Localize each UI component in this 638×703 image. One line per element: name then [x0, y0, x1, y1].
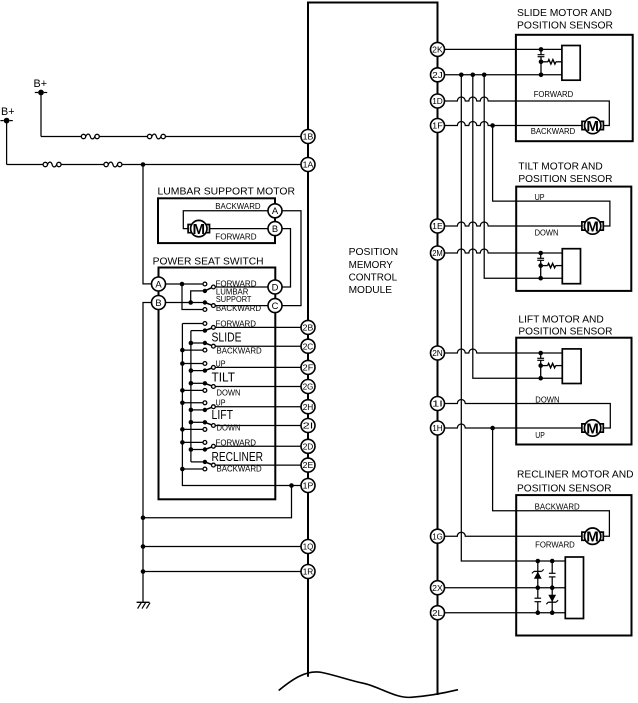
svg-text:TILT MOTOR AND: TILT MOTOR AND	[518, 161, 603, 173]
switch pole lumbar-backward	[203, 300, 216, 307]
sensor branch wire left	[537, 561, 539, 598]
wire junction to 1P	[292, 485, 302, 487]
switch group LIFT	[182, 398, 301, 433]
switch pole LIFT upper	[203, 408, 207, 412]
svg-text:UP: UP	[535, 192, 545, 202]
svg-text:DOWN: DOWN	[217, 387, 241, 397]
switch group TILT	[182, 358, 301, 397]
svg-text:BACKWARD: BACKWARD	[217, 464, 262, 474]
switch pole TILT upper	[203, 368, 207, 372]
feeder wire E (1H to recliner backward)	[493, 428, 610, 536]
output wire LIFT upper	[215, 406, 301, 408]
svg-text:DOWN: DOWN	[535, 227, 559, 237]
tilt motor and position sensor box	[516, 187, 631, 291]
wire 1P drop to ground bus	[143, 486, 292, 518]
output wire TILT upper	[215, 366, 301, 368]
output wire SLIDE upper	[215, 326, 301, 328]
connector 1B	[301, 130, 315, 144]
svg-text:M: M	[586, 119, 599, 135]
wire 1D row to slide motor loop	[445, 97, 610, 126]
contact SLIDE BACKWARD	[203, 348, 207, 352]
fuse F1 on 1B feed	[81, 134, 99, 139]
fuse F4 on 1A feed	[104, 162, 122, 167]
connector 1I	[431, 397, 445, 411]
position sensor lift	[537, 349, 581, 384]
svg-text:2L: 2L	[432, 608, 443, 618]
svg-text:D: D	[272, 281, 279, 292]
contact forward (lumbar)	[203, 282, 207, 286]
connector 1G	[431, 529, 445, 543]
wire switch pin B to ground bus	[143, 303, 152, 602]
wire B+ lower down to 1A row	[6, 123, 8, 165]
connector D	[268, 280, 282, 294]
svg-text:FORWARD: FORWARD	[534, 89, 574, 99]
switch pole SLIDE upper	[203, 328, 207, 332]
svg-text:POWER SEAT SWITCH: POWER SEAT SWITCH	[153, 255, 264, 267]
connector A	[268, 204, 282, 218]
svg-text:1A: 1A	[303, 160, 314, 170]
contact LIFT UP	[203, 401, 207, 405]
lumbar stub bus	[182, 284, 203, 310]
wire B+ upper down to 1B row	[40, 95, 42, 137]
connector 2G	[301, 380, 315, 394]
wire ground bus to 1R	[143, 571, 301, 573]
svg-text:LIFT MOTOR AND: LIFT MOTOR AND	[518, 314, 604, 326]
svg-text:LUMBAR SUPPORT MOTOR: LUMBAR SUPPORT MOTOR	[158, 185, 296, 197]
connector A	[152, 277, 166, 291]
feeder wire C (2J to tilt sensor bottom)	[484, 75, 562, 278]
svg-text:BACKWARD: BACKWARD	[217, 345, 262, 355]
output wire RECLINER upper	[215, 445, 301, 447]
junction 1F feeder	[490, 123, 495, 128]
connector 2K	[431, 42, 445, 56]
svg-text:UP: UP	[216, 398, 226, 408]
svg-text:2N: 2N	[432, 348, 443, 358]
svg-text:1Q: 1Q	[303, 542, 314, 552]
stub wire LIFT DOWN	[182, 428, 203, 430]
svg-text:POSITION SENSOR: POSITION SENSOR	[517, 20, 613, 32]
svg-text:C: C	[272, 300, 279, 311]
connector 2F	[301, 360, 315, 374]
svg-text:DOWN: DOWN	[535, 395, 559, 405]
wire 2J row to slide sensor bottom	[445, 74, 562, 76]
label TILT MOTOR AND POSITION SENSOR	[518, 161, 612, 185]
pole wire SLIDE lower	[191, 342, 205, 344]
stub bus (left) down to 1P	[182, 324, 291, 486]
svg-text:RECLINER MOTOR AND: RECLINER MOTOR AND	[517, 469, 634, 481]
stub wire SLIDE BACKWARD	[182, 349, 203, 351]
wire 2X row to recliner sensor	[445, 587, 566, 589]
svg-text:DOWN: DOWN	[217, 423, 241, 433]
label LIFT MOTOR AND POSITION SENSOR	[518, 314, 612, 338]
svg-text:MEMORY: MEMORY	[349, 259, 393, 271]
connector B	[152, 296, 166, 310]
label SLIDE MOTOR AND POSITION SENSOR	[517, 7, 613, 32]
ground symbol	[137, 602, 150, 608]
junction 1H feeder	[490, 426, 495, 431]
connector 2H	[301, 400, 315, 414]
svg-text:2F: 2F	[303, 363, 314, 373]
svg-text:FORWARD: FORWARD	[535, 540, 575, 550]
wire 1I row to lift motor loop	[445, 400, 611, 429]
svg-text:1P: 1P	[303, 481, 314, 491]
contact SLIDE FORWARD	[203, 322, 207, 326]
wire 1F row to slide motor	[445, 122, 583, 126]
svg-text:POSITION SENSOR: POSITION SENSOR	[518, 326, 612, 338]
connector 1F	[431, 119, 445, 133]
motor lumbar M1	[188, 220, 209, 237]
junction pole bus on B row	[188, 300, 193, 305]
svg-text:B: B	[155, 297, 161, 308]
svg-text:M: M	[586, 530, 599, 546]
svg-text:2J: 2J	[432, 70, 443, 80]
wire 1G row to recliner motor	[445, 532, 582, 536]
switch pole TILT lower	[203, 381, 207, 385]
junction near 1P	[289, 483, 294, 488]
svg-text:BACKWARD: BACKWARD	[531, 126, 576, 136]
connector 2N	[431, 346, 445, 360]
output wire RECLINER lower	[215, 464, 301, 466]
stub wire RECLINER FORWARD	[182, 441, 203, 443]
svg-text:B+: B+	[34, 78, 48, 90]
svg-text:FORWARD: FORWARD	[215, 231, 256, 241]
feeder wire A (2J to recliner sensor top)	[461, 75, 565, 561]
fuse F2 on 1B feed	[147, 134, 165, 139]
connector 2J	[431, 68, 445, 82]
connector 1A	[301, 158, 315, 172]
connector 2D	[301, 439, 315, 453]
connector 2X	[431, 581, 445, 595]
contact LIFT DOWN	[203, 428, 207, 432]
connector 1P	[301, 479, 315, 493]
connector C	[268, 299, 282, 313]
contact RECLINER BACKWARD	[203, 467, 207, 471]
junction on A row	[180, 282, 185, 287]
pole wire SLIDE upper	[191, 330, 205, 332]
wire motor A to switch C	[282, 211, 301, 306]
svg-text:B+: B+	[1, 106, 15, 118]
svg-text:A: A	[272, 205, 279, 216]
contact TILT DOWN	[203, 389, 207, 393]
svg-text:1G: 1G	[432, 531, 443, 541]
feeder wire B (2J to lift sensor bottom)	[473, 75, 563, 378]
svg-text:UP: UP	[216, 358, 226, 368]
wire 2K row to slide sensor	[445, 48, 562, 50]
svg-text:M: M	[586, 219, 599, 235]
svg-text:POSITION: POSITION	[349, 246, 399, 258]
svg-text:1F: 1F	[432, 121, 443, 131]
pole wire RECLINER lower	[191, 461, 205, 463]
junctions on 2J row	[459, 73, 464, 78]
capacitor on right branch	[549, 572, 556, 574]
svg-text:1B: 1B	[303, 132, 314, 142]
output wire LIFT lower	[215, 425, 301, 427]
motor lift M4	[582, 420, 603, 438]
connector 2B	[301, 320, 315, 334]
switch pole RECLINER upper	[203, 447, 207, 451]
power seat switch box	[159, 268, 276, 500]
wire 2N row to lift sensor	[445, 349, 563, 353]
svg-text:POSITION SENSOR: POSITION SENSOR	[517, 483, 612, 495]
wire motor pin B forward	[210, 228, 269, 230]
wire 1H row to lift motor	[445, 424, 582, 428]
wire 1E row to tilt motor	[445, 222, 582, 226]
svg-text:1E: 1E	[432, 221, 443, 231]
module label POSITION MEMORY CONTROL MODULE	[349, 246, 399, 296]
connector 1R	[301, 565, 315, 579]
svg-text:2C: 2C	[303, 341, 314, 351]
svg-text:M: M	[586, 421, 599, 437]
motor slide M2	[582, 117, 603, 135]
svg-text:2M: 2M	[432, 248, 443, 258]
svg-text:2G: 2G	[303, 382, 314, 392]
switch pole lumbar-forward	[203, 285, 216, 293]
connector 1Q	[301, 540, 315, 554]
svg-text:1H: 1H	[432, 423, 443, 433]
stub wire LIFT UP	[182, 402, 203, 404]
position memory control module box	[308, 3, 438, 696]
stub wire TILT DOWN	[182, 389, 203, 391]
zener diode up on left branch	[534, 572, 542, 579]
svg-text:RECLINER: RECLINER	[212, 450, 264, 464]
svg-text:2X: 2X	[432, 583, 443, 593]
svg-text:B: B	[272, 223, 278, 234]
connector 2M	[431, 246, 445, 260]
svg-text:BACKWARD: BACKWARD	[535, 502, 580, 512]
label RECLINER MOTOR AND POSITION SENSOR	[517, 469, 634, 495]
motor recliner M5	[582, 528, 603, 546]
switch group SLIDE	[182, 318, 301, 355]
svg-text:2B: 2B	[303, 323, 314, 333]
sensor branch wire right	[551, 561, 553, 573]
svg-text:SLIDE MOTOR AND: SLIDE MOTOR AND	[517, 7, 612, 19]
svg-text:MODULE: MODULE	[349, 284, 393, 296]
wire ground bus to 1Q	[143, 546, 301, 548]
capacitor on left branch	[535, 597, 542, 599]
lumbar support motor box	[158, 198, 275, 243]
output wire TILT lower	[215, 386, 301, 388]
zener diode down on right branch	[548, 595, 556, 602]
fuse F3 on 1A feed	[43, 162, 61, 167]
pole bus (inner)	[190, 331, 192, 462]
svg-text:1D: 1D	[432, 96, 443, 106]
contact RECLINER FORWARD	[203, 441, 207, 445]
connector 2L	[431, 606, 445, 620]
svg-text:2H: 2H	[303, 402, 314, 412]
connector B	[268, 222, 282, 236]
junction ground bus / 1P link	[141, 515, 146, 520]
pole wire TILT upper	[191, 370, 205, 372]
svg-text:2K: 2K	[432, 45, 443, 55]
pole wire RECLINER upper	[191, 449, 205, 451]
connector 2E	[301, 458, 315, 472]
contact backward (lumbar)	[203, 308, 207, 312]
connector 2C	[301, 339, 315, 353]
svg-text:TILT: TILT	[212, 370, 236, 384]
svg-text:LIFT: LIFT	[212, 408, 234, 422]
wire motor pin A backward loop	[183, 211, 268, 229]
switch pole SLIDE lower	[203, 341, 207, 345]
recliner position sensor	[532, 557, 584, 619]
wire lumbar-forward output to D	[215, 286, 268, 288]
module break wave	[279, 672, 458, 697]
switch pole LIFT lower	[203, 420, 207, 424]
recliner motor and position sensor box	[516, 495, 631, 635]
connector 1E	[431, 219, 445, 233]
wire pin A row to forward contact	[166, 283, 204, 285]
wire 1B row segments	[41, 136, 81, 138]
pole wire LIFT upper	[191, 409, 205, 411]
connector 2I	[301, 419, 315, 433]
svg-text:A: A	[155, 278, 162, 289]
svg-text:M: M	[193, 222, 206, 238]
wire pin B row	[166, 302, 204, 304]
junction on 1A row feeding switch A	[141, 162, 146, 167]
wire motor B to switch D	[282, 229, 291, 287]
pole wire TILT lower	[191, 382, 205, 384]
position sensor tilt	[537, 249, 580, 284]
switch group RECLINER	[182, 437, 301, 473]
contact TILT UP	[203, 362, 207, 366]
stub wire RECLINER BACKWARD	[182, 468, 203, 470]
junction dots recliner sensor	[536, 559, 541, 564]
junction ground bus 1R	[141, 569, 146, 574]
svg-text:1R: 1R	[303, 567, 314, 577]
pole wire LIFT lower	[191, 421, 205, 423]
svg-text:CONTROL: CONTROL	[349, 271, 398, 283]
output wire SLIDE lower	[215, 345, 301, 347]
connector 1H	[431, 421, 445, 435]
svg-text:2D: 2D	[303, 441, 314, 451]
wire lumbar-backward output to C	[215, 305, 268, 307]
feeder wire D (1F to tilt up)	[493, 126, 610, 227]
junction ground bus 1Q	[141, 544, 146, 549]
battery terminal B+ lower	[0, 106, 14, 124]
svg-text:1I: 1I	[432, 399, 443, 409]
svg-text:POSITION SENSOR: POSITION SENSOR	[518, 173, 612, 185]
svg-text:BACKWARD: BACKWARD	[215, 201, 260, 211]
motor tilt M3	[582, 218, 603, 236]
wire 1A row segments	[7, 164, 43, 166]
slide motor and position sensor box	[516, 35, 633, 141]
stub wire TILT UP	[182, 363, 203, 365]
wire 1A junction down to switch pin A	[143, 165, 152, 284]
stub wire SLIDE FORWARD	[182, 323, 203, 325]
connector 1D	[431, 94, 445, 108]
wire 2M row to tilt sensor	[445, 249, 563, 253]
lift motor and position sensor box	[516, 338, 631, 445]
svg-text:2E: 2E	[303, 460, 314, 470]
wire 2L row to recliner sensor	[445, 612, 566, 614]
svg-text:SLIDE: SLIDE	[212, 330, 242, 344]
switch pole RECLINER lower	[203, 460, 207, 464]
svg-text:BACKWARD: BACKWARD	[216, 303, 261, 313]
svg-text:2I: 2I	[303, 421, 314, 431]
svg-text:UP: UP	[535, 430, 545, 440]
position sensor slide	[538, 46, 581, 81]
wire lumbar pole1 to pole bus	[191, 291, 205, 303]
svg-text:FORWARD: FORWARD	[216, 437, 257, 447]
battery terminal B+ upper	[34, 78, 48, 96]
svg-text:FORWARD: FORWARD	[216, 318, 257, 328]
